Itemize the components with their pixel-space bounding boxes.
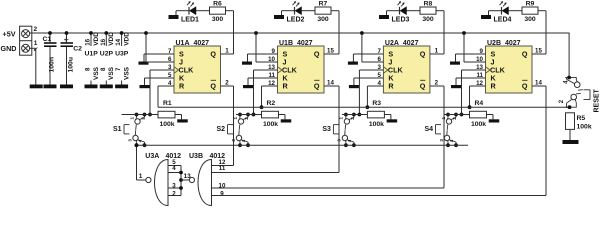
svg-text:C2: C2 — [73, 46, 82, 53]
ground bar LED4 — [481, 11, 491, 19]
junction dots U3A input tie — [179, 171, 183, 190]
svg-text:300: 300 — [317, 16, 329, 23]
svg-text:R7: R7 — [319, 1, 328, 8]
junction dots S3 node A — [344, 113, 356, 117]
ground bar K pin U1B — [243, 85, 253, 88]
pin 3 label U3A — [172, 183, 176, 190]
resistor R2 100k — [262, 111, 279, 118]
svg-text:VDD: VDD — [123, 32, 130, 46]
label C1 — [43, 36, 52, 43]
power pins U3P VDD pin 14 — [115, 32, 130, 46]
power pins U1P VDD pin 16 — [85, 32, 100, 46]
pin 13 label of U2B — [476, 64, 483, 71]
label U1P — [85, 51, 99, 58]
svg-text:VDD: VDD — [108, 32, 115, 46]
wire R3 to ground — [384, 115, 391, 120]
svg-text:300: 300 — [422, 16, 434, 23]
wires U3A inputs pins 5 4 3 2 — [168, 166, 181, 196]
wire S pin of U1B to ground — [248, 54, 278, 62]
wire LED3 to R8 — [407, 10, 421, 12]
LED LED3 — [398, 1, 407, 15]
pin 9 label U3B — [220, 191, 224, 198]
svg-text:Q: Q — [420, 50, 426, 59]
label C2 — [73, 46, 82, 53]
ground bar LED2 — [274, 11, 284, 19]
junction dots S2 node A — [238, 113, 250, 117]
wire Q-bar pin 2 of U2A to U3B input — [430, 86, 444, 188]
wire LED4 to R9 — [509, 10, 523, 12]
svg-text:16: 16 — [85, 38, 92, 45]
label R4 — [475, 100, 484, 107]
ground bar K pin U1A — [140, 85, 150, 88]
svg-text:LED1: LED1 — [181, 16, 199, 23]
svg-text:3: 3 — [439, 139, 444, 142]
wire K pin of U1B to ground — [248, 78, 278, 85]
label LED3 — [392, 16, 410, 23]
ground bar K pin U2A — [349, 85, 359, 88]
svg-text:4027: 4027 — [297, 40, 313, 47]
junction dot reset line U1B — [260, 105, 264, 109]
junction dot C1 rail — [48, 31, 52, 35]
ground bar U2P — [100, 85, 113, 89]
resistor R1 100k — [158, 111, 175, 118]
svg-text:LED3: LED3 — [392, 16, 410, 23]
flip-flop U2B 4027 — [486, 46, 533, 93]
svg-text:4: 4 — [449, 139, 454, 142]
wire U3A output pin 1 to lockout line — [137, 145, 146, 180]
svg-text:7: 7 — [115, 67, 122, 71]
pin 11 label of U2B — [476, 72, 483, 79]
ground bar S pin U1A — [139, 62, 149, 65]
svg-text:R6: R6 — [213, 1, 222, 8]
wire lockout line node B — [137, 144, 469, 146]
wire Q-bar pin 14 of U2B to U3B input — [532, 86, 546, 196]
wire R8 to Q output of U2A — [436, 11, 444, 54]
wire K pin of U2A to ground — [354, 78, 384, 85]
wire U3B output pin 13 to U3A inputs — [181, 179, 189, 181]
wire CLK pin of U2A to switch node — [359, 70, 383, 115]
label U2A 4027 — [385, 40, 419, 47]
svg-text:R1: R1 — [163, 100, 172, 107]
wire GND terminal to ground — [30, 48, 36, 84]
ground bar C2 — [60, 85, 73, 89]
svg-text:3: 3 — [127, 139, 132, 142]
svg-text:100k: 100k — [369, 121, 384, 128]
junction dots S1 node A — [135, 113, 147, 117]
switch S1 pin digits — [127, 117, 145, 143]
pin 7 label of U1A — [168, 48, 172, 55]
junction dot CLK node S3 — [358, 113, 362, 117]
svg-text:100u: 100u — [68, 57, 75, 73]
wire R pin of U1B to reset line — [262, 86, 278, 107]
wire K pin of U2B to ground — [456, 78, 486, 85]
power pins U2P VDD pin 16 — [100, 32, 115, 46]
label U1A 4027 — [176, 40, 210, 47]
ground bar U3P — [115, 85, 128, 89]
switch S3 pin digits — [337, 117, 355, 143]
label 100k of R2 — [263, 121, 278, 128]
svg-text:100n: 100n — [49, 57, 56, 73]
label S4 — [424, 126, 433, 133]
pin 2 label U3A — [172, 191, 176, 198]
svg-text:100k: 100k — [577, 124, 592, 131]
flip-flop U2A 4027 — [383, 46, 430, 93]
svg-text:R4: R4 — [475, 100, 484, 107]
svg-text:R3: R3 — [372, 100, 381, 107]
junction dot J rail U2A — [360, 31, 364, 35]
junction dot CLK node S4 — [460, 113, 464, 117]
ground bar R2 — [281, 119, 292, 122]
resistor R6 300 — [210, 7, 226, 14]
label U2B 4027 — [487, 40, 521, 47]
ground bar GND terminal — [30, 85, 43, 89]
label +5V — [3, 30, 16, 39]
wire ground to LED1 — [176, 10, 189, 12]
svg-text:300: 300 — [524, 16, 536, 23]
label 300 of R9 — [524, 16, 536, 23]
wire J pin of U1B to +5V rail — [256, 33, 278, 62]
wire +5V rail — [30, 32, 570, 34]
svg-text:VSS: VSS — [123, 66, 130, 80]
pin 12 label of U1B — [268, 80, 275, 87]
junction dots S1 node B — [135, 143, 147, 147]
pin 11 label of U1B — [268, 72, 275, 79]
svg-text:3: 3 — [337, 139, 342, 142]
svg-text:3: 3 — [231, 139, 236, 142]
wire ground to LED2 — [282, 10, 295, 12]
wire J pin of U2A to +5V rail — [362, 33, 384, 62]
pin 12 label U3B — [219, 159, 226, 166]
label R8 — [424, 1, 433, 8]
label 100n — [49, 57, 56, 73]
svg-text:U1P: U1P — [85, 51, 99, 58]
wire J pin of U1A to +5V rail — [146, 33, 174, 62]
wire U3B input pin 12 from U1A Q-bar — [212, 165, 234, 167]
label 300 of R6 — [212, 16, 224, 23]
pin 4 label RESET — [563, 80, 569, 84]
junction dot U3P rail — [120, 31, 124, 35]
pin 9 label of U1B — [272, 48, 276, 55]
junction dots S3 node B — [344, 143, 356, 147]
pin 3 label of U1A — [168, 64, 172, 71]
svg-text:4: 4 — [172, 165, 176, 172]
pin 5 label of U1A — [168, 72, 172, 79]
label U3A 4012 — [145, 153, 181, 160]
svg-text:100k: 100k — [159, 121, 174, 128]
pin 11 label U3B — [219, 165, 226, 172]
wire K pin of U1A to ground — [145, 78, 175, 85]
wire R9 to Q output of U2B — [538, 11, 546, 54]
pin 3 label of U2A — [377, 64, 381, 71]
svg-text:100k: 100k — [471, 121, 486, 128]
label LED2 — [287, 16, 305, 23]
wire node A S1 — [122, 114, 159, 116]
ground bar LED3 — [379, 11, 389, 19]
svg-text:13: 13 — [184, 173, 192, 180]
junction dot reset node — [568, 105, 572, 109]
wire R4 to ground — [487, 115, 494, 120]
svg-text:LED2: LED2 — [287, 16, 305, 23]
nand gate U3A 4012 — [146, 160, 168, 206]
resistor R4 100k — [470, 111, 487, 118]
wire node A S4 — [444, 114, 470, 116]
capacitor C1 — [44, 33, 57, 85]
svg-text:1: 1 — [139, 173, 143, 180]
nand gate U3B 4012 — [189, 160, 211, 206]
svg-text:Q: Q — [210, 50, 216, 59]
label 100k of R3 — [369, 121, 384, 128]
wire U3B input pin 9 from U2B Q-bar — [212, 195, 547, 197]
svg-text:2: 2 — [350, 117, 355, 120]
junction dot J rail U1A — [144, 31, 148, 35]
ground bar S pin U2A — [348, 62, 358, 65]
svg-text:4: 4 — [138, 139, 143, 142]
label LED4 — [494, 16, 512, 23]
flip-flop U1B 4027 — [278, 46, 325, 93]
svg-text:U3A: U3A — [145, 153, 159, 160]
flip-flop U1A 4027 — [174, 46, 221, 93]
pin 14 label Q-bar U2B — [535, 80, 542, 87]
pin 2 label RESET — [559, 99, 565, 103]
svg-text:1: 1 — [435, 48, 439, 55]
wire node A S3 — [342, 114, 368, 116]
svg-text:R: R — [179, 82, 185, 91]
svg-text:U1B: U1B — [279, 40, 293, 47]
wire R pin of U2B to reset line — [470, 86, 486, 107]
svg-text:U2A: U2A — [385, 40, 399, 47]
svg-text:U3P: U3P — [115, 51, 129, 58]
ground bar R3 — [387, 119, 398, 122]
wire LED1 to R6 — [196, 10, 210, 12]
svg-text:Q: Q — [314, 82, 320, 91]
switch S2 pin digits — [231, 117, 249, 143]
svg-text:10: 10 — [219, 183, 226, 190]
pin 13 label of U1B — [268, 64, 275, 71]
label RESET — [594, 88, 600, 112]
wire U3B input pin 10 from U2A Q-bar — [212, 187, 445, 189]
svg-text:S3: S3 — [322, 126, 331, 133]
wire ground to LED4 — [489, 10, 502, 12]
wire +5V rail to RESET switch — [568, 33, 570, 78]
pin 10 label of U1B — [268, 56, 275, 63]
svg-text:Q: Q — [522, 82, 528, 91]
junction dots S4 node A — [446, 113, 458, 117]
svg-text:Q: Q — [210, 82, 216, 91]
pin 15 label Q U1B — [327, 48, 334, 55]
svg-text:2: 2 — [559, 99, 565, 103]
svg-text:1: 1 — [339, 117, 344, 120]
svg-text:R: R — [388, 82, 394, 91]
svg-text:VSS: VSS — [93, 66, 100, 80]
svg-text:9: 9 — [220, 191, 224, 198]
pin 6 label of U1A — [168, 56, 172, 63]
wire R pin of U2A to reset line — [367, 86, 383, 107]
switch S4 pushbutton — [436, 115, 457, 146]
junction dot J rail U2B — [462, 31, 466, 35]
pin 14 label Q-bar U1B — [327, 80, 334, 87]
wire R2 to ground — [279, 115, 286, 120]
svg-text:VSS: VSS — [108, 66, 115, 80]
svg-text:2: 2 — [452, 117, 457, 120]
junction dot C2 rail — [65, 31, 69, 35]
pin 1 label Q U2A — [435, 48, 439, 55]
svg-text:14: 14 — [327, 80, 334, 87]
wire CLK pin of U1A to switch node — [150, 70, 174, 115]
svg-text:R: R — [491, 82, 497, 91]
svg-text:2: 2 — [435, 80, 439, 87]
resistor R3 100k — [367, 111, 384, 118]
svg-text:300: 300 — [212, 16, 224, 23]
svg-text:Q: Q — [314, 50, 320, 59]
pin 6 label of U2A — [377, 56, 381, 63]
svg-text:S1: S1 — [113, 126, 122, 133]
label R3 — [372, 100, 381, 107]
wire Q output pin 1 of U1A — [221, 53, 234, 55]
label R7 — [319, 1, 328, 8]
wire Q-bar pin 2 of U1A to U3B input — [221, 86, 234, 166]
svg-text:1: 1 — [129, 117, 134, 120]
label LED1 — [181, 16, 199, 23]
wire CLK pin of U1B to switch node — [254, 70, 278, 115]
svg-text:U1A: U1A — [176, 40, 190, 47]
svg-text:VDD: VDD — [93, 32, 100, 46]
svg-text:U2P: U2P — [100, 51, 114, 58]
svg-text:8: 8 — [85, 67, 92, 71]
label 100k of R5 — [577, 124, 592, 131]
svg-text:2: 2 — [34, 26, 38, 33]
LED LED1 — [187, 1, 196, 15]
wire Q output pin 15 of U2B — [532, 53, 546, 55]
pin 4 label of U2A — [377, 80, 381, 87]
switch RESET pushbutton — [565, 78, 590, 108]
switch S4 pin digits — [439, 117, 457, 143]
wire CLK pin of U2B to switch node — [462, 70, 486, 115]
junction dots S2 node B — [238, 143, 250, 147]
label 100u — [68, 57, 75, 73]
switch S3 pushbutton — [333, 115, 354, 146]
pin 1 label — [34, 40, 38, 50]
junction dot CLK node S2 — [252, 113, 256, 117]
junction dot U3A lockout — [135, 143, 139, 147]
wire reset line — [158, 106, 570, 108]
label U1B 4027 — [279, 40, 313, 47]
svg-text:4: 4 — [347, 139, 352, 142]
svg-text:11: 11 — [219, 165, 226, 172]
svg-text:+5V: +5V — [3, 30, 16, 39]
pin 4 label of U1A — [168, 80, 172, 87]
svg-text:R8: R8 — [424, 1, 433, 8]
connector K1 terminal block — [20, 26, 32, 55]
svg-text:14: 14 — [115, 38, 122, 45]
label U3P — [115, 51, 129, 58]
power pins U1P VSS pin 8 — [85, 66, 100, 84]
ground bar S pin U1B — [242, 62, 252, 65]
junction dot CLK node S1 — [148, 113, 152, 117]
pin 13 label U3B — [184, 173, 192, 180]
svg-text:14: 14 — [535, 80, 542, 87]
wire R6 to Q output of U1A — [226, 11, 234, 54]
label S2 — [216, 126, 225, 133]
pin 10 label of U2B — [476, 56, 483, 63]
wire Q output pin 15 of U1B — [324, 53, 339, 55]
svg-text:15: 15 — [327, 48, 334, 55]
svg-text:1: 1 — [225, 48, 229, 55]
wire S pin of U1A to ground — [144, 54, 174, 62]
junction dot reset line U2B — [468, 105, 472, 109]
svg-text:1: 1 — [441, 117, 446, 120]
pin 10 label U3B — [219, 183, 226, 190]
pin 1 label U3A — [139, 173, 143, 180]
svg-text:RESET: RESET — [594, 88, 600, 112]
label 300 of R7 — [317, 16, 329, 23]
junction dots S4 node B — [446, 143, 458, 147]
svg-text:R9: R9 — [526, 1, 535, 8]
svg-text:1: 1 — [233, 117, 238, 120]
label S3 — [322, 126, 331, 133]
svg-text:3: 3 — [172, 183, 176, 190]
ground bar R5 — [563, 140, 579, 144]
label GND — [1, 44, 17, 53]
ground bar K pin U2B — [451, 85, 461, 88]
power pins U3P VSS pin 7 — [115, 66, 130, 84]
svg-text:4: 4 — [241, 139, 246, 142]
label 100k of R1 — [159, 121, 174, 128]
ground bar S pin U2B — [450, 62, 460, 65]
pin 2 label — [34, 26, 38, 33]
ground bar U1P — [85, 85, 98, 89]
svg-text:2: 2 — [141, 117, 146, 120]
wire Q-bar pin 14 of U1B to U3B input — [324, 86, 339, 173]
label S1 — [113, 126, 122, 133]
pin 7 label of U2A — [377, 48, 381, 55]
label U3B 4012 — [189, 153, 225, 160]
resistor R5 100k — [566, 113, 575, 140]
pin 12 label of U2B — [476, 80, 483, 87]
power pins U2P VSS pin 8 — [100, 66, 115, 84]
ground bar C1 — [44, 85, 57, 89]
svg-text:8: 8 — [100, 67, 107, 71]
label R2 — [267, 100, 276, 107]
junction dot J rail U1B — [254, 31, 258, 35]
svg-text:S4: S4 — [424, 126, 433, 133]
svg-text:S2: S2 — [216, 126, 225, 133]
pin 5 label U3A — [172, 159, 176, 166]
wire R pin of U1A to reset line — [158, 86, 174, 107]
svg-text:LED4: LED4 — [494, 16, 512, 23]
label R6 — [213, 1, 222, 8]
LED LED2 — [293, 1, 302, 15]
svg-text:4027: 4027 — [194, 40, 210, 47]
svg-text:16: 16 — [100, 38, 107, 45]
wire S pin of U2A to ground — [353, 54, 383, 62]
wire J pin of U2B to +5V rail — [464, 33, 486, 62]
resistor R9 300 — [522, 7, 538, 14]
svg-text:100k: 100k — [263, 121, 278, 128]
svg-text:R5: R5 — [577, 115, 586, 122]
wire R7 to Q output of U1B — [331, 11, 339, 54]
junction dot RESET top — [567, 76, 571, 80]
svg-text:R2: R2 — [267, 100, 276, 107]
label R5 — [577, 115, 586, 122]
svg-text:Q: Q — [522, 50, 528, 59]
svg-text:4027: 4027 — [403, 40, 419, 47]
pin 2 label Q-bar U1A — [225, 80, 229, 87]
wire ground to LED3 — [387, 10, 400, 12]
switch S2 pushbutton — [228, 115, 249, 146]
label R1 — [163, 100, 172, 107]
svg-text:1: 1 — [34, 40, 38, 47]
svg-text:U2B: U2B — [487, 40, 501, 47]
